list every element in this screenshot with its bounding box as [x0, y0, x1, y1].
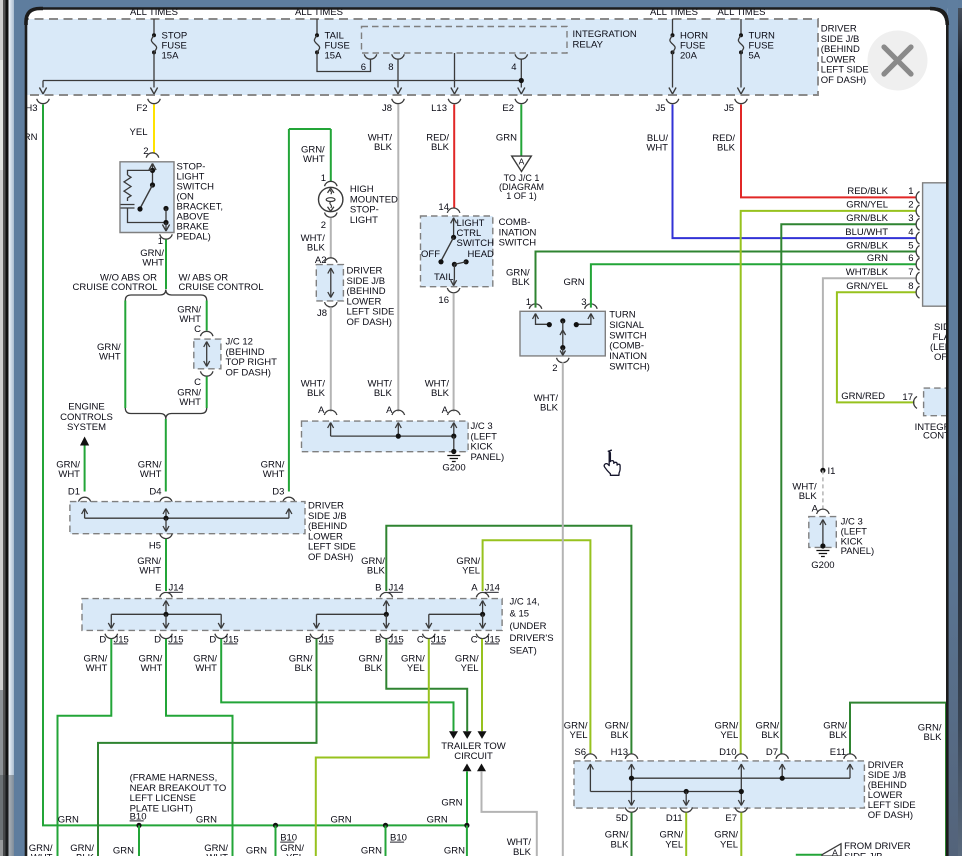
connector pin 2 GRN/YEL — [916, 205, 919, 217]
svg-text:C: C — [194, 377, 201, 388]
svg-text:BLK: BLK — [512, 277, 531, 288]
wire GRN trailer tow to B10 bus — [466, 771, 468, 823]
node B10 splice 4 — [464, 823, 469, 828]
bus 2 in bottom J/B — [590, 791, 741, 793]
junction connector J/C 3 (right, left kick panel) — [809, 517, 837, 548]
svg-text:GRN: GRN — [444, 846, 465, 857]
wire GRN/BLK B J15-1 to bottom — [98, 639, 317, 856]
svg-text:H5: H5 — [149, 540, 161, 551]
junction block: driver side J/B (left) — [70, 502, 305, 534]
svg-text:BLU/WHT: BLU/WHT — [845, 227, 888, 238]
wire GRN/BLK B J15-2 to trailer tow — [386, 639, 467, 731]
wire F2 YEL — [153, 105, 155, 154]
wire: relay pin4 to H3 feed — [43, 80, 521, 82]
svg-text:G200: G200 — [442, 463, 465, 474]
wire GRN turn signal pin3 to connector pin 6 — [591, 264, 916, 307]
wire WHT/BLK lamp to A2 — [330, 218, 332, 258]
wire GRN/BLK 5D to bottom — [631, 813, 633, 856]
connector pin 2 of lamp — [325, 213, 338, 218]
svg-text:B: B — [375, 583, 381, 594]
relay pin 8 — [392, 54, 405, 59]
svg-text:F2: F2 — [136, 103, 147, 114]
connector L13 — [448, 99, 461, 104]
svg-text:YEL: YEL — [665, 840, 683, 851]
connector pin 8 GRN/YEL — [916, 286, 919, 298]
svg-text:B: B — [375, 634, 381, 645]
svg-text:E2: E2 — [502, 103, 514, 114]
svg-text:D10: D10 — [719, 747, 736, 758]
mouse cursor — [604, 450, 620, 475]
svg-text:I1: I1 — [828, 466, 836, 477]
svg-text:BLK: BLK — [611, 730, 630, 741]
wire WHT/BLK dashed I1 to A — [822, 470, 824, 508]
svg-text:OF DASH): OF DASH) — [308, 552, 353, 563]
connector pin 3 GRN/BLK — [916, 218, 919, 230]
svg-text:8: 8 — [908, 281, 913, 292]
wire J5 BLU/WHT — [673, 105, 916, 239]
arrows from trailer tow circuit — [463, 764, 472, 772]
svg-text:BLK: BLK — [799, 491, 818, 502]
relay pin 4 — [515, 54, 528, 59]
svg-text:YEL: YEL — [130, 127, 148, 138]
svg-text:BLK: BLK — [611, 840, 630, 851]
arrows at J/B bottom border — [39, 88, 46, 95]
svg-text:INTEGRATION: INTEGRATION — [573, 29, 637, 40]
svg-text:BLK: BLK — [364, 663, 383, 674]
wire GRN/YEL pin8 loop — [837, 292, 916, 402]
svg-text:D7: D7 — [766, 747, 778, 758]
svg-text:E: E — [155, 583, 161, 594]
junction connector J/C 12 — [194, 339, 221, 369]
svg-text:SWITCH: SWITCH — [499, 238, 537, 249]
svg-text:BLK: BLK — [374, 388, 393, 399]
wire GRN/WHT brace stem to D4 — [165, 419, 167, 492]
wire GRN/WHT high-mount branch to D3 — [288, 129, 290, 492]
switch blade and contacts — [140, 185, 153, 209]
connector J8 below box — [325, 302, 338, 307]
svg-text:SYSTEM: SYSTEM — [67, 422, 106, 433]
connector pin 1 of stop-light switch — [160, 234, 173, 239]
wire GRN/YEL pin2 to D10 — [741, 211, 916, 754]
wire L13 RED/BLK — [453, 105, 455, 209]
relay box: INTEGRATION RELAY — [362, 27, 568, 54]
svg-text:WHT: WHT — [141, 663, 163, 674]
svg-text:SWITCH): SWITCH) — [609, 362, 650, 373]
svg-text:BLK: BLK — [924, 732, 943, 743]
brace split top — [125, 290, 206, 301]
svg-text:WHT: WHT — [140, 469, 162, 480]
svg-text:SIGNAL: SIGNAL — [609, 320, 644, 331]
switch: TURN SIGNAL SWITCH — [520, 311, 605, 356]
svg-text:H13: H13 — [611, 747, 628, 758]
node I1 — [820, 468, 825, 473]
switch: LIGHT CTRL SWITCH (combination switch) — [421, 216, 493, 287]
svg-text:BLK: BLK — [431, 388, 450, 399]
wire GRN/YEL C J15-2 to trailer tow — [481, 639, 483, 731]
junction connector J/C 14 and 15 (under driver seat) — [82, 599, 502, 631]
svg-text:1: 1 — [158, 236, 163, 247]
svg-text:GRN: GRN — [361, 846, 382, 857]
panel border — [26, 9, 40, 23]
svg-text:G200: G200 — [811, 560, 834, 571]
fuse: TURN FUSE 5A — [740, 19, 742, 34]
wire WHT/BLK J8 to J/C 3 — [330, 307, 332, 411]
svg-text:15A: 15A — [325, 51, 343, 62]
svg-text:LIGHT: LIGHT — [350, 215, 378, 226]
svg-text:A: A — [519, 157, 525, 167]
wire GRN/WHT below J/C 12 — [206, 377, 208, 409]
svg-text:GRN/BLK: GRN/BLK — [846, 213, 888, 224]
switch: STOP-LIGHT SWITCH — [146, 153, 159, 158]
svg-text:17: 17 — [902, 392, 913, 403]
svg-text:BLK: BLK — [513, 847, 532, 856]
svg-text:CRUISE CONTROL: CRUISE CONTROL — [179, 282, 264, 293]
svg-text:PANEL): PANEL) — [471, 452, 505, 463]
svg-text:1: 1 — [908, 186, 913, 197]
svg-text:1 OF 1): 1 OF 1) — [506, 191, 537, 201]
wire GRN/WHT engine controls to D1 — [84, 446, 86, 492]
svg-text:SIDE J/B: SIDE J/B — [844, 851, 883, 856]
svg-text:5: 5 — [908, 240, 913, 251]
svg-text:GRN: GRN — [246, 846, 267, 857]
wire GRN/WHT left branch (w/o abs) — [124, 301, 126, 409]
svg-text:YEL: YEL — [462, 566, 480, 577]
svg-text:D: D — [154, 634, 161, 645]
node B10 splice 1 — [136, 823, 141, 828]
svg-text:YEL: YEL — [286, 853, 304, 857]
fuse: STOP FUSE 15A — [153, 19, 155, 34]
connector pin 1 RED/BLK — [916, 191, 919, 203]
svg-text:SWITCH: SWITCH — [609, 330, 647, 341]
brace merge bottom — [125, 408, 206, 419]
svg-text:A: A — [471, 583, 478, 594]
wire GRN/BLK pin3 to D7 — [781, 224, 915, 753]
svg-text:OF DASH): OF DASH) — [821, 75, 866, 86]
bus 1 in bottom J/B — [632, 777, 851, 779]
svg-text:GRN/BLK: GRN/BLK — [846, 240, 888, 251]
wire GRN B10 stub 2 — [275, 825, 277, 856]
wire WHT/BLK light ctrl to J/C 3 — [453, 293, 455, 411]
connector H3 — [37, 99, 50, 104]
node J/C3 bus junctions — [396, 434, 401, 439]
svg-text:(COMB-: (COMB- — [609, 341, 644, 352]
svg-text:WHT: WHT — [206, 853, 228, 857]
connector pin 2 of turn signal switch — [557, 358, 570, 363]
wire D11 drop — [685, 792, 687, 805]
svg-text:SWITCH: SWITCH — [457, 238, 495, 249]
connector H5 — [160, 534, 173, 539]
svg-text:YEL: YEL — [461, 663, 479, 674]
svg-text:4: 4 — [908, 227, 913, 238]
svg-text:OFF: OFF — [421, 249, 440, 260]
svg-text:WHT: WHT — [142, 258, 164, 269]
wire E2 GRN — [520, 105, 522, 157]
svg-text:SEAT): SEAT) — [510, 645, 537, 656]
svg-text:YEL: YEL — [407, 663, 425, 674]
wire GRN/YEL E7 to bottom — [740, 813, 742, 856]
svg-text:BLK: BLK — [540, 403, 559, 414]
svg-text:J5: J5 — [655, 103, 665, 114]
svg-text:4: 4 — [511, 62, 516, 73]
svg-text:15A: 15A — [162, 51, 180, 62]
fuse: TAIL FUSE 15A — [316, 19, 318, 34]
connectors J15 row — [105, 634, 118, 639]
svg-text:WHT: WHT — [263, 469, 285, 480]
wire GRN/YEL C J15-1 to bottom — [316, 639, 429, 856]
svg-text:GRN/YEL: GRN/YEL — [846, 281, 888, 292]
connector E2 — [515, 99, 528, 104]
svg-text:C: C — [194, 324, 201, 335]
svg-text:GRN: GRN — [330, 815, 351, 826]
svg-text:8: 8 — [388, 62, 393, 73]
svg-text:WHT: WHT — [86, 663, 108, 674]
svg-text:C: C — [417, 634, 424, 645]
svg-text:BLK: BLK — [717, 143, 736, 154]
svg-text:D: D — [99, 634, 106, 645]
svg-text:C: C — [471, 634, 478, 645]
wire GRN/WHT from stop-light switch — [165, 240, 167, 290]
svg-text:OF: OF — [934, 352, 947, 363]
svg-text:2: 2 — [552, 363, 557, 374]
svg-text:WHT: WHT — [139, 566, 161, 577]
node B10 splice 3 — [383, 823, 388, 828]
svg-text:YEL: YEL — [720, 730, 738, 741]
svg-text:WHT: WHT — [58, 469, 80, 480]
svg-text:OF DASH): OF DASH) — [868, 810, 913, 821]
wire GRN B10 stub 1 — [138, 825, 140, 856]
svg-text:BLK: BLK — [761, 730, 780, 741]
svg-text:WHT: WHT — [195, 663, 217, 674]
wire GRN B10 stub 4 — [466, 825, 468, 856]
svg-text:BLK: BLK — [367, 566, 386, 577]
ground G200 (left) — [453, 436, 455, 451]
svg-text:WHT: WHT — [179, 397, 201, 408]
svg-text:CRUISE CONTROL: CRUISE CONTROL — [73, 282, 158, 293]
svg-text:BLK: BLK — [431, 142, 450, 153]
svg-text:GRN: GRN — [113, 846, 134, 857]
svg-text:5D: 5D — [616, 813, 628, 824]
svg-text:(UNDER: (UNDER — [510, 621, 547, 632]
svg-text:3: 3 — [908, 213, 913, 224]
svg-text:YEL: YEL — [720, 840, 738, 851]
svg-text:WHT/BLK: WHT/BLK — [846, 267, 889, 278]
svg-text:GRN: GRN — [441, 798, 462, 809]
connector J5 (turn) — [735, 99, 748, 104]
svg-text:GRN: GRN — [427, 815, 448, 826]
svg-text:RED/BLK: RED/BLK — [847, 186, 888, 197]
svg-text:D: D — [209, 634, 216, 645]
ground G200 (right) — [816, 551, 829, 557]
connector pin 4 BLU/WHT — [916, 232, 919, 244]
svg-text:OF DASH): OF DASH) — [226, 367, 271, 378]
svg-text:6: 6 — [908, 253, 913, 264]
wire GRN/BLK turn signal pin1 to connector pin 5 — [536, 252, 916, 308]
off-page connector A to J/C 1 — [512, 156, 532, 171]
svg-text:D11: D11 — [666, 813, 683, 824]
connector pin 5 GRN/BLK — [916, 246, 919, 258]
svg-text:16: 16 — [438, 295, 449, 306]
svg-text:YEL: YEL — [570, 730, 588, 741]
wire GRN B10 stub 3 — [385, 825, 387, 856]
wire GRN/WHT right branch to J/C 12 — [206, 301, 208, 331]
svg-text:& 15: & 15 — [510, 609, 530, 620]
svg-text:CIRCUIT: CIRCUIT — [454, 751, 493, 762]
resistor in stop-light switch — [128, 170, 153, 175]
svg-text:GRN/YEL: GRN/YEL — [846, 200, 888, 211]
svg-text:WHT: WHT — [31, 853, 53, 857]
svg-text:BLK: BLK — [829, 730, 848, 741]
svg-text:1: 1 — [321, 173, 326, 184]
connector pin 16 — [447, 288, 460, 293]
wire J5 RED/BLK to pin 1 — [741, 105, 916, 198]
wire WHT/BLK turn signal pin2 to bottom — [562, 362, 564, 856]
svg-text:BLK: BLK — [374, 142, 393, 153]
connectors 5D D11 E7 — [625, 807, 638, 812]
svg-text:J8: J8 — [382, 103, 392, 114]
connector J5 (horn) — [666, 99, 679, 104]
relay pin L13 drop — [454, 53, 456, 88]
junction block: DRIVER SIDE J/B top box — [20, 19, 818, 95]
wire GRN/BLK pin3-loop to B J14 — [386, 526, 631, 754]
svg-text:GRN: GRN — [563, 277, 584, 288]
arrows to trailer tow circuit — [449, 731, 458, 739]
svg-text:2: 2 — [908, 200, 913, 211]
junction connector J/C 3 (left kick panel) — [302, 421, 469, 452]
relay box: integration control (clipped) — [924, 388, 948, 416]
svg-text:A: A — [832, 848, 838, 857]
svg-text:6: 6 — [361, 62, 366, 73]
svg-text:BLK: BLK — [307, 243, 326, 254]
junction block: driver side J/B (bottom) — [574, 761, 864, 808]
svg-text:PANEL): PANEL) — [841, 546, 875, 557]
connector box right (side flasher) — [923, 183, 948, 306]
svg-text:PEDAL): PEDAL) — [177, 232, 211, 243]
wire GRN/WHT D J15-2 to bottom — [166, 639, 233, 856]
svg-text:RELAY: RELAY — [573, 40, 604, 51]
svg-text:J5: J5 — [724, 103, 734, 114]
svg-text:7: 7 — [908, 267, 913, 278]
node B junction — [384, 612, 389, 617]
svg-text:GRN: GRN — [58, 815, 79, 826]
junction: driver side J/B A2-J8 box — [316, 265, 343, 301]
svg-text:20A: 20A — [680, 51, 698, 62]
off-page connector A from driver side J/B — [796, 854, 822, 856]
svg-text:INATION: INATION — [609, 351, 647, 362]
svg-text:L13: L13 — [431, 103, 447, 114]
svg-text:GRN/RED: GRN/RED — [841, 391, 885, 402]
svg-text:WHT: WHT — [303, 154, 325, 165]
fuse: HORN FUSE 20A — [672, 19, 674, 34]
svg-text:E7: E7 — [725, 813, 737, 824]
wire WHT/BLK trailer tow to bottom — [482, 771, 537, 856]
node A junction — [480, 612, 485, 617]
svg-text:WHT: WHT — [99, 352, 121, 363]
node E junction — [163, 612, 168, 617]
wire H3 GRN down left side and B10 bus — [43, 105, 467, 826]
svg-text:OF DASH): OF DASH) — [347, 317, 392, 328]
wire GRN/WHT to high mounted stop-light — [330, 129, 332, 181]
window frame — [0, 0, 962, 9]
arrow to engine controls system — [80, 437, 89, 446]
wire GRN/WHT D J15-3 to trailer tow — [221, 639, 453, 731]
svg-text:J/C 14,: J/C 14, — [510, 597, 540, 608]
svg-text:S6: S6 — [574, 747, 586, 758]
wire GRN/YEL pin2-loop to A J14 — [483, 540, 591, 753]
wire WHT/BLK pin7 down to I1 — [823, 278, 916, 470]
svg-text:BLK: BLK — [76, 853, 95, 857]
wire GRN/BLK right edge to E11 — [850, 703, 946, 856]
svg-text:HEAD: HEAD — [468, 249, 495, 260]
svg-text:GRN: GRN — [196, 815, 217, 826]
svg-text:5A: 5A — [749, 51, 761, 62]
wire GRN/WHT D J15-1 to bottom — [58, 639, 112, 856]
svg-text:J8: J8 — [317, 308, 327, 319]
connector C bottom of J/C 12 — [200, 371, 213, 376]
capacitor in stop-light switch — [121, 205, 135, 209]
svg-text:D3: D3 — [272, 486, 284, 497]
lamp: HIGH MOUNTED STOP-LIGHT — [319, 187, 343, 211]
svg-text:GRN: GRN — [496, 133, 517, 144]
connector J8 — [392, 99, 405, 104]
svg-text:BLK: BLK — [295, 663, 314, 674]
svg-text:TAIL: TAIL — [434, 272, 453, 283]
wire GRN/WHT H5 to E — [165, 539, 167, 591]
svg-text:WHT: WHT — [646, 143, 668, 154]
wire GRN/YEL D11 to bottom — [685, 813, 687, 856]
wire J8 WHT/BLK long — [397, 105, 399, 412]
connector pin 7 WHT/BLK — [916, 272, 919, 284]
svg-text:B: B — [305, 634, 311, 645]
svg-text:BLK: BLK — [307, 388, 326, 399]
svg-text:E11: E11 — [830, 747, 846, 758]
connector F2 — [148, 99, 161, 104]
svg-text:GRN: GRN — [867, 253, 888, 264]
svg-text:TURN: TURN — [609, 310, 636, 321]
close button — [868, 31, 928, 91]
svg-text:2: 2 — [321, 220, 326, 231]
relay pin 6 — [364, 54, 377, 59]
node B10 splice 2 — [273, 823, 278, 828]
svg-text:DRIVER'S: DRIVER'S — [510, 633, 554, 644]
svg-text:D4: D4 — [149, 486, 161, 497]
svg-text:D1: D1 — [68, 486, 80, 497]
node D4 junction — [163, 516, 168, 521]
connector pin 6 GRN — [916, 258, 919, 270]
